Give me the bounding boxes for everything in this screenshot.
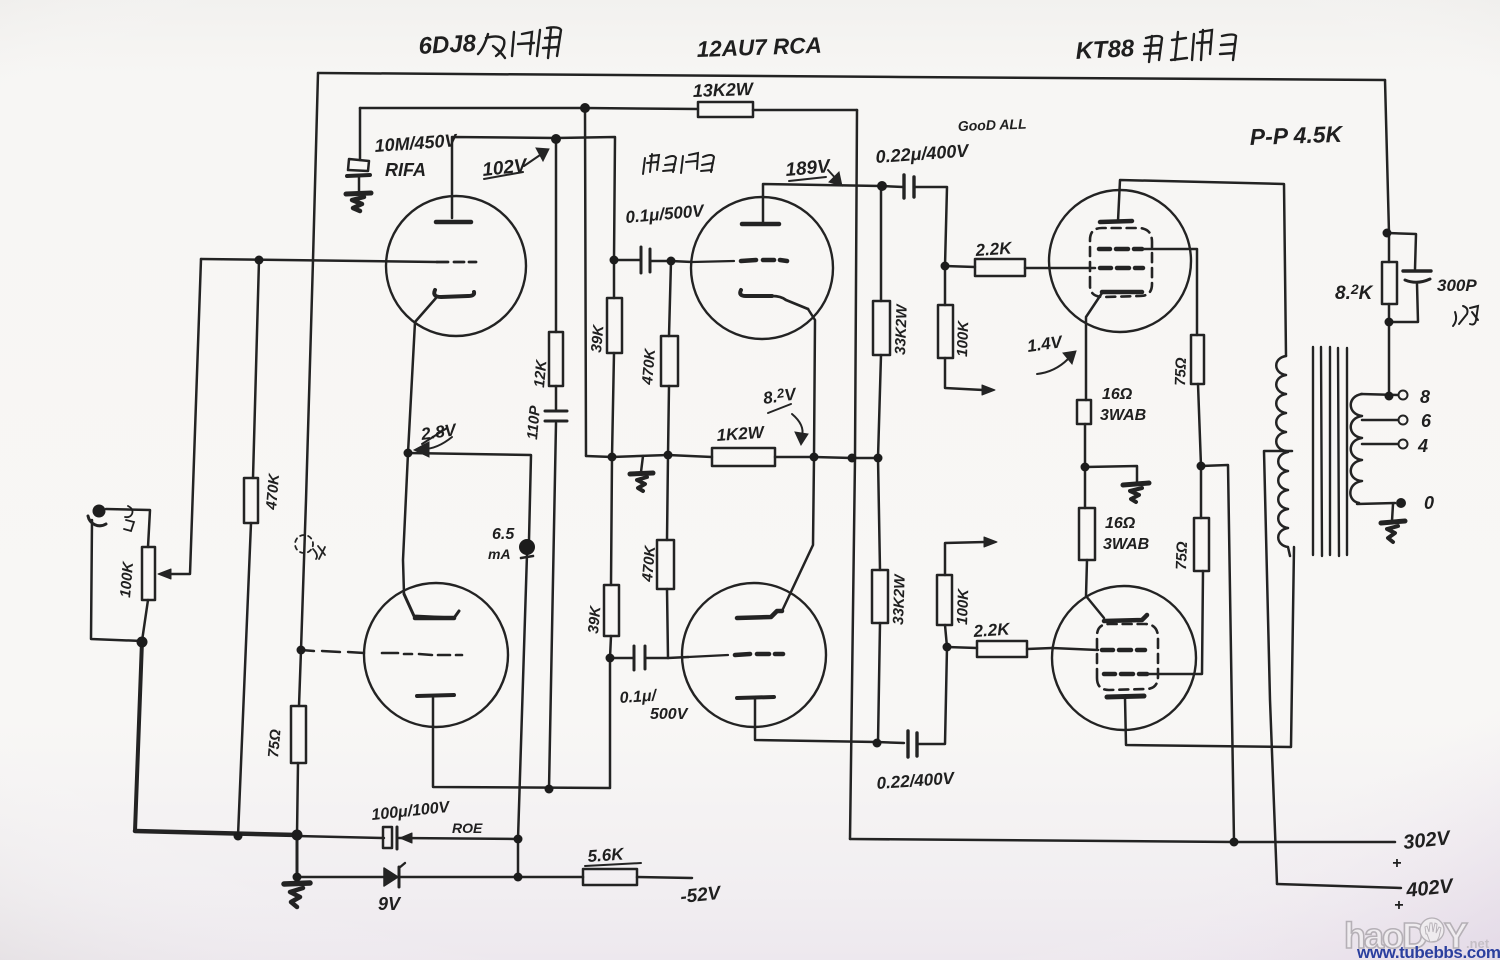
resistor 75R screen lower — [1200, 466, 1203, 518]
V3 plate — [1100, 221, 1132, 222]
wire: lower grid node down and left to 6DJ8b cathode — [433, 658, 610, 788]
ground below RIFA cap — [346, 193, 371, 194]
wire: secondary 6 tap — [1362, 419, 1398, 422]
V3 screen dashes — [1099, 247, 1142, 252]
svg-text:6DJ8: 6DJ8 — [418, 30, 477, 60]
wire: diode row — [297, 876, 384, 879]
V2a cathode with tail — [740, 290, 772, 296]
svg-text:www.tubebbs.com: www.tubebbs.com — [1356, 943, 1500, 960]
resistor 13K 2W — [698, 102, 753, 117]
resistor 2.2K upper grid stopper — [975, 259, 1025, 276]
wire: grid node to 75ohm and ground bus — [297, 650, 301, 835]
terminal 4 — [1399, 440, 1408, 449]
wire: V3 anode to OPT primary top — [1118, 180, 1286, 356]
wire: x=586 from 102V rail down to 12AU7a cathode row — [585, 108, 586, 456]
tube 6DJ8 upper triode V1a envelope — [386, 196, 526, 336]
wire: right border vertical down to 8.2K node — [1385, 80, 1389, 233]
wire: thick ground bus down and right — [135, 641, 142, 831]
wire: cathode row y=456 — [586, 455, 712, 457]
capacitor 0.1u/500V lower coupling — [633, 646, 636, 670]
wire: V2b grid from coupling node — [668, 657, 688, 658]
wire: secondary 0 tap — [1357, 503, 1395, 504]
tube 6DJ8 lower triode V1b envelope — [364, 583, 508, 727]
label input (chinese) rotated — [124, 506, 134, 531]
wire: ground bus to 100u cap — [297, 836, 384, 838]
resistor 470K upper — [661, 336, 678, 386]
wire: RIFA cap to ground — [358, 177, 361, 192]
test point 6.5mA probe tick — [521, 556, 533, 558]
svg-text:GooD ALL: GooD ALL — [958, 116, 1027, 134]
transformer OPT primary winding upper — [1276, 356, 1286, 451]
svg-text:8: 8 — [1420, 387, 1430, 407]
svg-text:100K: 100K — [954, 320, 972, 358]
wire: 470K upper top lead — [669, 261, 671, 336]
resistor 12K — [549, 332, 563, 386]
V4 cathode — [1104, 615, 1147, 621]
terminal 8 — [1399, 391, 1408, 400]
resistor 470K lower — [657, 540, 674, 589]
svg-text:75Ω: 75Ω — [265, 728, 284, 758]
svg-text:+: + — [1392, 855, 1401, 872]
arrow: 8.2V curved down — [792, 414, 803, 436]
V4 screen dashes — [1104, 672, 1147, 677]
V2b cathode — [737, 697, 774, 698]
svg-text:300P: 300P — [1437, 276, 1477, 295]
label gold lion (chinese) — [1144, 30, 1236, 62]
svg-text:3WAB: 3WAB — [1100, 407, 1146, 424]
svg-text:189V: 189V — [785, 156, 832, 181]
V3 beam outline dashed — [1090, 228, 1152, 297]
underline: 5.6K — [585, 863, 641, 866]
svg-text:P-P 4.5K: P-P 4.5K — [1249, 121, 1344, 150]
V1b cathode — [417, 695, 454, 696]
svg-text:mA: mA — [488, 546, 511, 562]
resistor 5.6K — [583, 869, 637, 885]
wire: x=556 down to 12K — [555, 139, 558, 332]
wire: test point to negative bias bus — [518, 554, 527, 839]
wire: 110P down to bias loop — [549, 423, 556, 789]
V2b plate with step — [737, 611, 782, 618]
wire: RIFA cap lead from 102V rail — [359, 108, 362, 160]
wire: jack hot to pot top — [106, 509, 150, 547]
svg-text:100K: 100K — [117, 560, 137, 598]
svg-text:ROE: ROE — [452, 820, 483, 836]
V2b grid dashes — [688, 655, 728, 657]
svg-text:39K: 39K — [585, 604, 604, 634]
arrow: 1.4V curved up-right — [1037, 359, 1068, 374]
wire: cap to KT88a grid network — [915, 187, 947, 266]
ground main flag — [284, 883, 310, 884]
svg-text:13K2W: 13K2W — [692, 79, 755, 101]
svg-text:16Ω: 16Ω — [1105, 515, 1136, 532]
svg-text:4: 4 — [1417, 436, 1428, 456]
transformer OPT primary winding lower — [1278, 452, 1290, 556]
wire: top feedback rail from left border to right border — [318, 73, 1385, 80]
transformer OPT primary center tap — [1264, 451, 1292, 884]
wire: secondary 8 tap — [1361, 394, 1398, 395]
svg-text:16Ω: 16Ω — [1102, 386, 1133, 403]
capacitor 100u/100V ROE — [383, 827, 392, 848]
wire: B+ vertical x=855 down to +302V rail — [850, 110, 857, 839]
wire: V1b anode up to 2.8V node — [403, 453, 408, 594]
wire: 2.8V node to 6.5mA test point column — [408, 453, 531, 540]
svg-text:1K2W: 1K2W — [716, 423, 766, 445]
svg-text:39K: 39K — [588, 323, 607, 353]
V1a plate — [436, 220, 471, 225]
V1b grid dashes — [382, 653, 462, 655]
wire: NFB node to 8 tap — [1388, 233, 1391, 395]
svg-text:470K: 470K — [263, 472, 283, 511]
wire: V2b cathode down to 0.22 lower — [755, 698, 904, 743]
resistor 33K2W upper — [873, 301, 890, 355]
tube 12AU7 upper triode V2a envelope — [691, 197, 833, 339]
tube KT88 upper V3 envelope — [1049, 190, 1191, 332]
resistor 75ohm grid return — [291, 706, 306, 763]
wire: lower coupling node — [610, 657, 668, 660]
resistor 8.2K NFB — [1382, 262, 1397, 304]
svg-text:2.2K: 2.2K — [972, 619, 1012, 641]
wire: 0 tap to ground — [1392, 504, 1393, 521]
wire: V3 cathode to 16R — [1086, 293, 1102, 400]
svg-text:33K2W: 33K2W — [892, 303, 911, 355]
potentiometer 100K body — [142, 547, 155, 600]
annotation arrows — [414, 148, 1076, 866]
wire: 6DJ8a anode to 102V node — [452, 137, 615, 260]
wire: grid cap node x=614 down through 39K — [613, 260, 616, 298]
resistor 75R screen upper — [1191, 335, 1204, 384]
wire: 470K lower top lead — [667, 455, 668, 540]
wire: 470K input grid leak top lead — [253, 260, 259, 478]
wire: V4 grid from 2.2K — [1052, 648, 1098, 650]
wire: pot wiper to V1a grid — [163, 259, 201, 574]
svg-text:470K: 470K — [639, 347, 659, 386]
tube 12AU7 lower triode V2b envelope — [682, 583, 826, 727]
svg-text:2.2K: 2.2K — [974, 238, 1014, 260]
V2a plate — [742, 222, 779, 227]
resistor 33K2W lower — [878, 458, 880, 570]
diode 9V zener — [384, 868, 398, 886]
svg-text:100K: 100K — [954, 588, 972, 626]
wire: 100u to bias junction — [399, 838, 518, 839]
wire: cap to KT88b grid network — [918, 647, 947, 744]
svg-text:9V: 9V — [378, 894, 402, 914]
arrow: 18PV points to plate wire — [828, 170, 838, 181]
wire: bias junction vertical — [517, 839, 520, 877]
wire: 102V supply rail y=108 — [360, 108, 698, 109]
wire: V3 grid from 2.2K — [1049, 267, 1095, 270]
ground at secondary 0 — [1381, 521, 1405, 523]
arrow: 2.8V points to node — [421, 437, 452, 449]
svg-text:-52V: -52V — [679, 883, 722, 908]
capacitor 10M/450V RIFA plates — [348, 159, 369, 171]
wire: V1a cathode down to 2.8V node — [408, 298, 436, 453]
svg-text:500V: 500V — [650, 706, 689, 723]
underline: 18PV — [789, 177, 826, 181]
wire: V2b anode up to 1K junction — [782, 457, 814, 611]
wire: V4 anode to OPT primary bottom — [1125, 547, 1294, 747]
wire: left border / NFB line down to lower 6DJ8 grid node — [301, 73, 318, 650]
svg-text:0.1μ/: 0.1μ/ — [619, 687, 658, 707]
wire: V1a grid from input stage — [201, 259, 437, 262]
ground stub on cathode row — [641, 456, 643, 472]
V4 control grid dashes — [1102, 648, 1145, 653]
label (tube brand chinese) — [643, 153, 714, 174]
V1a cathode — [434, 290, 474, 297]
V1b plate with hook — [404, 594, 459, 618]
capacitor 300P NFB branch — [1387, 233, 1416, 269]
terminal 0 — [1396, 498, 1406, 508]
V2a grid dashes — [692, 261, 734, 262]
arrow: 102V points to anode node — [524, 153, 543, 166]
wire: screen node column — [1198, 384, 1201, 466]
label mica (chinese) — [1453, 306, 1478, 326]
svg-text:RIFA: RIFA — [385, 160, 426, 180]
resistor 1K 2W — [712, 448, 775, 466]
svg-text:12K: 12K — [531, 358, 550, 388]
wire: +402V lead — [1277, 884, 1401, 888]
watermark haoDIY — [1344, 915, 1500, 960]
svg-text:KT88: KT88 — [1075, 35, 1136, 65]
resistor 100K lower — [937, 575, 952, 625]
wire: V3 screen to 75R upper — [1142, 249, 1197, 335]
wire: diode to 5.6K — [399, 876, 583, 879]
shield note dashed circle — [295, 535, 313, 553]
wire: 33K upper top lead — [880, 186, 883, 301]
V1a grid dashes — [437, 261, 476, 264]
wire: ground bus to diode row — [296, 835, 299, 877]
V4 beam outline dashed — [1097, 624, 1158, 690]
svg-text:12AU7 RCA: 12AU7 RCA — [696, 33, 822, 62]
resistor 16R 3WAB lower — [1084, 467, 1087, 508]
wire: V2a anode to 18PV node — [763, 184, 903, 224]
capacitor 110P — [545, 410, 567, 413]
wire: secondary 4 tap — [1362, 443, 1398, 446]
wire: pot bottom to ground bus junction — [142, 600, 148, 641]
wire: cathode node to ground — [1085, 466, 1137, 483]
wire: +302V rail — [850, 839, 1395, 842]
pot wiper arrowhead — [158, 569, 171, 579]
terminal 6 — [1399, 416, 1408, 425]
svg-text:110P: 110P — [524, 404, 544, 440]
wire: x=612 down to lower 39K — [611, 457, 612, 585]
V4 plate — [1107, 696, 1144, 697]
resistor 2.2K lower grid stopper — [977, 641, 1027, 657]
svg-text:6: 6 — [1421, 411, 1432, 431]
wire: V2a cathode tail to 1K junction — [808, 309, 815, 457]
tube KT88 lower V4 envelope — [1052, 586, 1196, 730]
wire: 12K to 110P — [555, 386, 558, 409]
resistor 16R 3WAB upper — [1077, 400, 1091, 424]
svg-text:5.6K: 5.6K — [587, 844, 626, 866]
ground at KT88 cathodes — [1123, 483, 1149, 485]
transformer OPT core laminations — [1313, 347, 1347, 556]
V3 cathode — [1102, 290, 1142, 295]
wire: 100K lower to bias arrow — [945, 542, 985, 575]
resistor 100K upper — [938, 305, 953, 358]
resistor 39K lower — [604, 585, 619, 636]
wire: screen node to +302V rail — [1201, 465, 1234, 842]
svg-text:+: + — [1394, 897, 1403, 914]
svg-text:470K: 470K — [639, 544, 659, 583]
wire: jack ground down to ground bus — [91, 520, 142, 641]
input jack — [93, 505, 106, 518]
svg-text:3WAB: 3WAB — [1103, 536, 1149, 553]
wire: 1K2W right to 33K column — [775, 457, 879, 458]
capacitor 0.22/400V lower — [906, 731, 909, 757]
svg-text:33K2W: 33K2W — [890, 573, 909, 625]
wire: 5.6K to -52V — [637, 877, 692, 878]
wire: from 13K right to B+ drop vertical — [753, 109, 857, 112]
test point 6.5mA — [519, 539, 535, 555]
capacitor 0.22u/400V upper — [902, 175, 905, 198]
svg-text:0: 0 — [1424, 493, 1434, 513]
V3 control grid dashes — [1100, 266, 1143, 271]
wire: V1b grid node dashes from NFB node — [301, 650, 364, 653]
resistor 39K upper — [607, 298, 622, 353]
svg-text:6.5: 6.5 — [492, 526, 515, 543]
label Philips (chinese) — [478, 27, 561, 58]
wire: lower screen lead — [1147, 571, 1203, 674]
capacitor 0.1u/500V upper coupling — [640, 247, 643, 273]
resistor 470K input — [244, 478, 258, 523]
svg-text:75Ω: 75Ω — [1172, 357, 1190, 386]
wire: KT88a grid leak node — [944, 266, 947, 305]
transformer OPT secondary winding — [1350, 394, 1362, 503]
underline: 102V — [484, 172, 523, 179]
wire: 100K upper to bias arrow — [945, 358, 983, 390]
svg-text:75Ω: 75Ω — [1173, 541, 1191, 570]
wire: 16R lower to V4 cathode — [1086, 560, 1104, 618]
